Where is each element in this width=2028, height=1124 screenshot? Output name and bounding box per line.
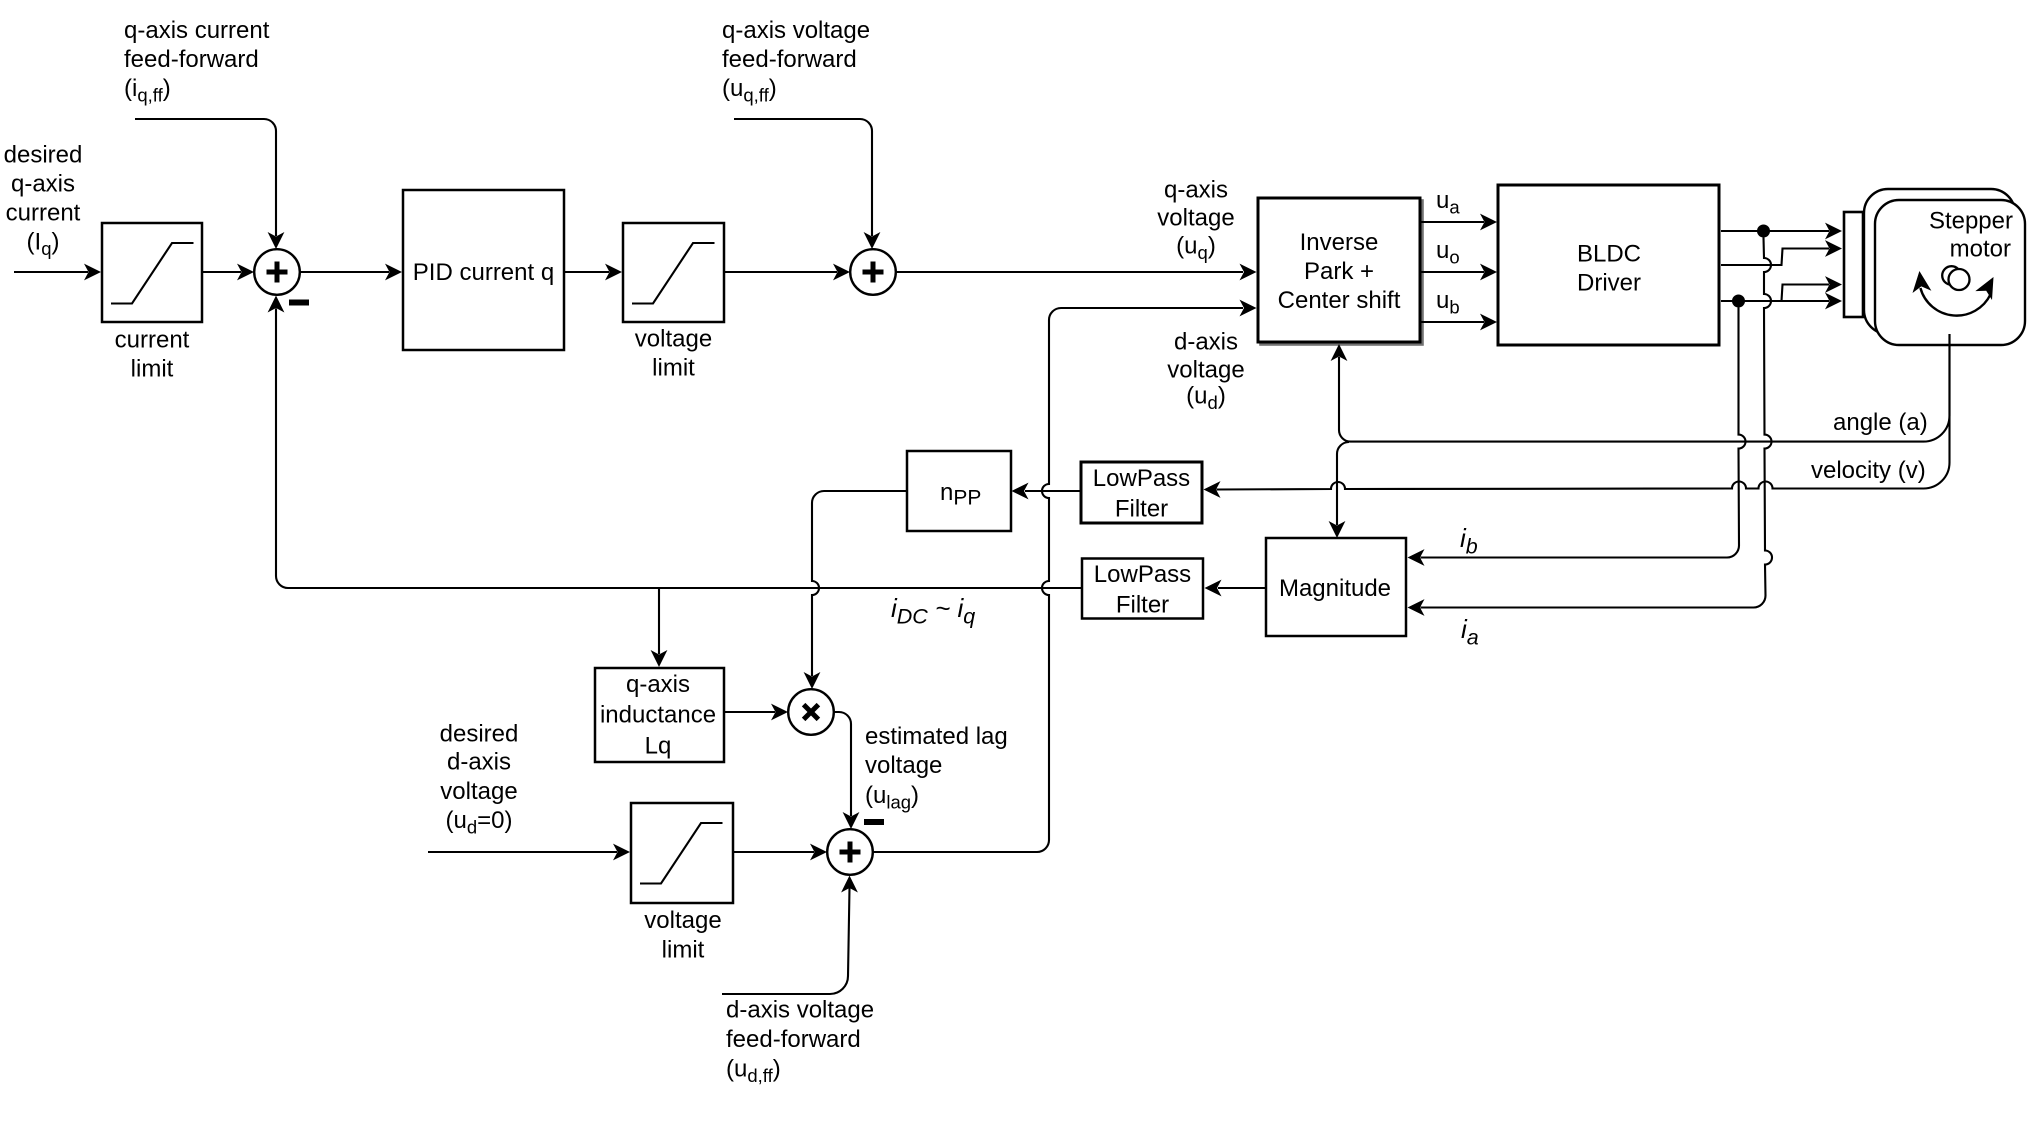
svg-text:desired: desired: [4, 142, 83, 169]
svg-text:voltage: voltage: [1167, 357, 1244, 384]
svg-text:(Iq): (Iq): [27, 229, 60, 260]
svg-text:Driver: Driver: [1577, 270, 1641, 297]
svg-text:ia: ia: [1461, 614, 1479, 650]
svg-text:PID current q: PID current q: [413, 259, 554, 286]
svg-text:ub: ub: [1436, 287, 1460, 318]
svg-text:(uq): (uq): [1176, 233, 1216, 264]
svg-text:q-axis current: q-axis current: [124, 17, 270, 44]
svg-text:Stepper: Stepper: [1929, 208, 2013, 235]
svg-text:(uq,ff): (uq,ff): [722, 75, 777, 106]
block: PID current q: [403, 190, 564, 350]
wire: n_PP output down to multiplier: [812, 491, 907, 676]
svg-text:feed-forward: feed-forward: [722, 46, 857, 73]
block: LowPass Filter (current): [1082, 559, 1203, 619]
wire: desired d-axis voltage into voltage limit: [428, 851, 617, 853]
summing junction S3: [827, 829, 873, 875]
label: S1 minus sign: [289, 300, 309, 306]
wire: S2 to Inverse Park q input (u_q): [896, 271, 1244, 273]
wire: angle branch down into Magnitude: [1337, 442, 1349, 525]
svg-text:voltage: voltage: [635, 326, 712, 353]
svg-text:inductance: inductance: [600, 702, 716, 729]
svg-text:Magnitude: Magnitude: [1279, 575, 1391, 602]
svg-text:Filter: Filter: [1116, 592, 1169, 619]
wire: S3 output up to Inverse Park d input (u_d): [873, 308, 1244, 852]
stepper motor flange: [1844, 212, 1863, 317]
svg-text:feed-forward: feed-forward: [726, 1026, 861, 1053]
wire: current limit to summing junction S1: [203, 271, 241, 273]
block: voltage limit d saturation: [631, 803, 733, 903]
block: LowPass Filter (velocity): [1081, 462, 1202, 523]
svg-text:(ulag): (ulag): [865, 782, 919, 813]
summing junction S1: [254, 249, 300, 295]
wire: BLDC phase 3 to motor: [1721, 300, 1829, 302]
wire: voltage limit to summing junction S2: [724, 271, 837, 273]
svg-text:voltage: voltage: [865, 752, 942, 779]
svg-text:(ud,ff): (ud,ff): [726, 1056, 781, 1087]
svg-text:current: current: [6, 200, 81, 227]
wire: Magnitude to LowPass current filter: [1218, 587, 1266, 589]
svg-text:voltage: voltage: [1157, 205, 1234, 232]
wire: Inverse Park u_b output to BLDC: [1421, 321, 1484, 323]
svg-text:iDC ~ iq: iDC ~ iq: [891, 593, 975, 629]
wire: q-axis voltage feed-forward into S2 top: [734, 119, 872, 236]
wire: BLDC phase 2 to motor with jog up: [1721, 249, 1829, 266]
stepper motor rotation arc with arrows: [1920, 288, 1990, 316]
svg-text:ib: ib: [1460, 523, 1478, 559]
svg-text:uo: uo: [1436, 237, 1460, 268]
svg-text:velocity (v): velocity (v): [1811, 457, 1926, 484]
wire: d-axis voltage feed-forward into S3 bottom: [722, 888, 850, 994]
wire: S1 to PID current q: [300, 271, 390, 273]
svg-text:desired: desired: [440, 721, 519, 748]
wire: desired q-axis current into current limit: [14, 271, 88, 273]
wire: BLDC phase 1 to motor: [1721, 230, 1829, 232]
svg-text:Center shift: Center shift: [1278, 287, 1401, 314]
svg-text:q-axis: q-axis: [11, 171, 75, 198]
stepper motor back plate: [1864, 189, 2015, 334]
svg-text:d-axis: d-axis: [447, 749, 511, 776]
wire: LowPass velocity output to n_PP: [1025, 490, 1081, 492]
svg-text:Filter: Filter: [1115, 496, 1168, 523]
stepper motor rotor icon circles: [1942, 266, 1961, 285]
svg-text:ua: ua: [1436, 187, 1460, 218]
wire: i_DC branch down into q-axis inductance block: [658, 588, 660, 654]
block: q-axis inductance Lq: [595, 668, 724, 762]
block: n_PP: [907, 451, 1011, 531]
wire: q-axis current feed-forward into S1 top: [135, 119, 276, 236]
svg-text:(ud=0): (ud=0): [446, 807, 513, 838]
multiplier junction M1: [788, 689, 834, 735]
wire: inductance block to multiplier: [724, 711, 775, 713]
svg-text:Lq: Lq: [645, 733, 672, 760]
wire: velocity feedback from motor to LowPass filter: [1217, 334, 1950, 490]
block: Magnitude: [1266, 538, 1406, 636]
wire: PID current q to voltage limit: [564, 271, 609, 273]
svg-text:q-axis: q-axis: [1164, 177, 1228, 204]
wire: current sense i_b tap from phase 3 down to Magnitude: [1421, 308, 1746, 558]
svg-text:current: current: [115, 327, 190, 354]
wire: current sense i_a tap from phase 1 down to Magnitude: [1421, 238, 1773, 608]
svg-text:Inverse: Inverse: [1300, 229, 1379, 256]
svg-text:Park +: Park +: [1304, 258, 1374, 285]
block: current limit saturation: [102, 223, 202, 322]
wire: Inverse Park u_o output to BLDC: [1421, 271, 1484, 273]
junction dot on phase 1: [1757, 225, 1770, 238]
svg-text:q-axis voltage: q-axis voltage: [722, 17, 870, 44]
svg-text:limit: limit: [131, 356, 174, 383]
svg-text:BLDC: BLDC: [1577, 241, 1641, 268]
wire: angle feedback from motor to Inverse Park bottom: [1339, 334, 1950, 442]
svg-text:q-axis: q-axis: [626, 671, 690, 698]
svg-text:voltage: voltage: [440, 778, 517, 805]
svg-text:(ud): (ud): [1186, 383, 1226, 414]
block: Inverse Park + Center shift (with shadow): [1261, 201, 1423, 345]
svg-text:d-axis: d-axis: [1174, 329, 1238, 356]
svg-text:LowPass: LowPass: [1094, 561, 1191, 588]
junction dot on phase 3: [1732, 295, 1745, 308]
svg-text:limit: limit: [662, 937, 705, 964]
wire: Inverse Park u_a output to BLDC: [1421, 221, 1484, 223]
wire: i_DC feedback from LowPass filter to S1 minus input: [276, 309, 1081, 589]
svg-text:voltage: voltage: [644, 907, 721, 934]
svg-text:LowPass: LowPass: [1093, 465, 1190, 492]
summing junction S2: [850, 249, 896, 295]
svg-text:motor: motor: [1950, 236, 2011, 263]
svg-text:(iq,ff): (iq,ff): [124, 75, 171, 106]
wire: multiplier output down to S3 top (u_lag): [834, 712, 852, 816]
block: BLDC Driver: [1498, 185, 1719, 345]
stepper motor body: [1875, 200, 2025, 345]
svg-text:angle (a): angle (a): [1833, 409, 1928, 436]
wire: phase 3 jog up branch to motor: [1782, 285, 1830, 302]
wire: voltage limit d to summing junction S3: [733, 851, 814, 853]
svg-text:estimated lag: estimated lag: [865, 723, 1008, 750]
svg-text:d-axis voltage: d-axis voltage: [726, 997, 874, 1024]
block: voltage limit q saturation: [623, 223, 724, 322]
svg-text:feed-forward: feed-forward: [124, 46, 259, 73]
svg-text:limit: limit: [652, 355, 695, 382]
label: S3 minus sign: [864, 819, 884, 825]
